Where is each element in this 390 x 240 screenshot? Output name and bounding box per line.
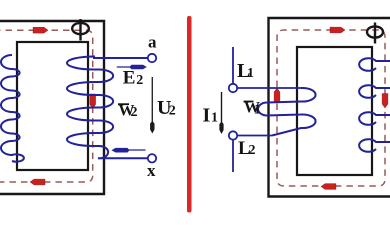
svg-text:1: 1 — [254, 103, 261, 118]
primary winding on right core left limb — [258, 88, 316, 136]
svg-text:2: 2 — [131, 105, 138, 120]
I1 arrow (points down) — [219, 92, 223, 134]
wire L1 to primary coil — [237, 87, 301, 89]
L1 terminal wire — [232, 47, 234, 84]
flux arrow right (left core top) — [33, 27, 48, 33]
label W2 with overbar — [118, 103, 138, 121]
svg-text:2: 2 — [136, 73, 143, 88]
svg-text:1: 1 — [247, 66, 254, 81]
right transformer core outer edge — [269, 18, 390, 197]
label W1 with overbar — [244, 100, 261, 118]
left core right-limb winding (4 turns, secondary) — [67, 57, 148, 159]
left core left-limb winding (5 turns) — [1, 55, 24, 162]
flux arrow down (right core right limb) — [382, 94, 388, 109]
flux path PHI dashed loop (right core) — [277, 30, 385, 186]
flux arrow left (left core bottom) — [30, 179, 45, 185]
flux arrow left (right core bottom) — [321, 184, 336, 190]
U2 arrow (points down) — [150, 77, 154, 134]
E2 arrow (points right) — [117, 65, 147, 70]
flux arrow up (right core left limb) — [274, 88, 280, 103]
L2 terminal circle — [229, 131, 237, 139]
svg-text:a: a — [148, 33, 157, 52]
svg-text:1: 1 — [211, 111, 218, 126]
L1 terminal circle — [229, 84, 237, 92]
phi symbol (right core) — [367, 23, 383, 44]
flux arrow right (right core top) — [330, 27, 345, 33]
L2 terminal wire down — [232, 140, 234, 172]
terminal a circle — [148, 54, 156, 62]
svg-text:2: 2 — [249, 143, 256, 158]
svg-text:I: I — [203, 105, 211, 127]
terminal x circle — [148, 154, 156, 162]
left transformer core outer edge — [0, 21, 104, 194]
right core right-limb winding (4 loops with wires to edge) — [359, 58, 390, 152]
wire L2 to primary coil — [237, 135, 272, 137]
svg-text:x: x — [147, 161, 156, 180]
left transformer core inner window — [17, 42, 88, 170]
right transformer core inner window — [297, 47, 372, 175]
svg-text:E: E — [123, 68, 136, 89]
flux path PHI dashed loop (left core) — [0, 30, 93, 182]
red divider bar — [187, 16, 192, 213]
i2 arrow (points left, above x wire) — [112, 148, 146, 153]
svg-text:2: 2 — [169, 104, 176, 119]
phi symbol (left core) — [72, 19, 89, 41]
flux arrow down (left core right limb) — [90, 94, 96, 109]
